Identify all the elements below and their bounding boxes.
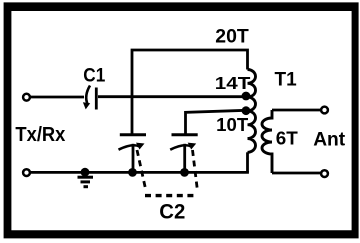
svg-text:C2: C2 [159, 200, 185, 224]
capacitor C2 section B rotor plate with arrow [170, 145, 191, 149]
capacitor C2 section A top plate [120, 133, 146, 136]
svg-text:Ant: Ant [313, 129, 345, 151]
node Ant bottom terminal [321, 170, 328, 177]
dashed gang link bottom [145, 194, 198, 197]
wire: Tx/Rx top terminal to C1 [30, 96, 84, 99]
ground symbol [81, 168, 90, 177]
node Tx/Rx top terminal [23, 94, 30, 101]
wire: C1 to 14T tap [98, 95, 246, 98]
node 14T tap junction [242, 92, 251, 101]
capacitor C1 straight plate [95, 88, 98, 110]
svg-text:C1: C1 [83, 65, 105, 87]
wire: primary bottom to ground rail [246, 152, 249, 172]
svg-text:6T: 6T [276, 128, 298, 148]
wire: secondary top to Ant terminal [272, 109, 321, 112]
svg-text:T1: T1 [275, 69, 298, 90]
wire: top 20T link from cap1 feed to coil top [132, 50, 248, 134]
node 10T tap junction [242, 106, 251, 115]
dashed gang link right [193, 150, 198, 191]
wire: secondary bottom to Ant terminal [272, 172, 321, 175]
svg-text:14T: 14T [215, 73, 251, 93]
dashed gang link left [137, 150, 146, 191]
wire: C2 section B to ground rail [183, 144, 186, 173]
inductor T1 secondary winding (3 turns) [262, 110, 272, 173]
capacitor C2 section A rotor plate with arrow [119, 145, 140, 149]
svg-text:10T: 10T [216, 114, 249, 135]
wire: 10T tap to cap2 feed [186, 110, 247, 134]
svg-text:20T: 20T [215, 25, 249, 47]
wire: C2 section A to ground rail [132, 144, 135, 173]
svg-text:Tx/Rx: Tx/Rx [15, 124, 66, 146]
capacitor C2 section B top plate [172, 133, 198, 136]
wire: bottom ground rail [30, 171, 249, 174]
node Tx/Rx bottom terminal [23, 169, 30, 176]
capacitor C1 (trimmer) curved plate with arrow [86, 86, 90, 105]
node C2 section B junction [180, 168, 189, 177]
node Ant top terminal [321, 107, 328, 114]
node C2 section A junction [128, 168, 137, 177]
inductor T1 primary winding (6 turns) [248, 70, 256, 153]
